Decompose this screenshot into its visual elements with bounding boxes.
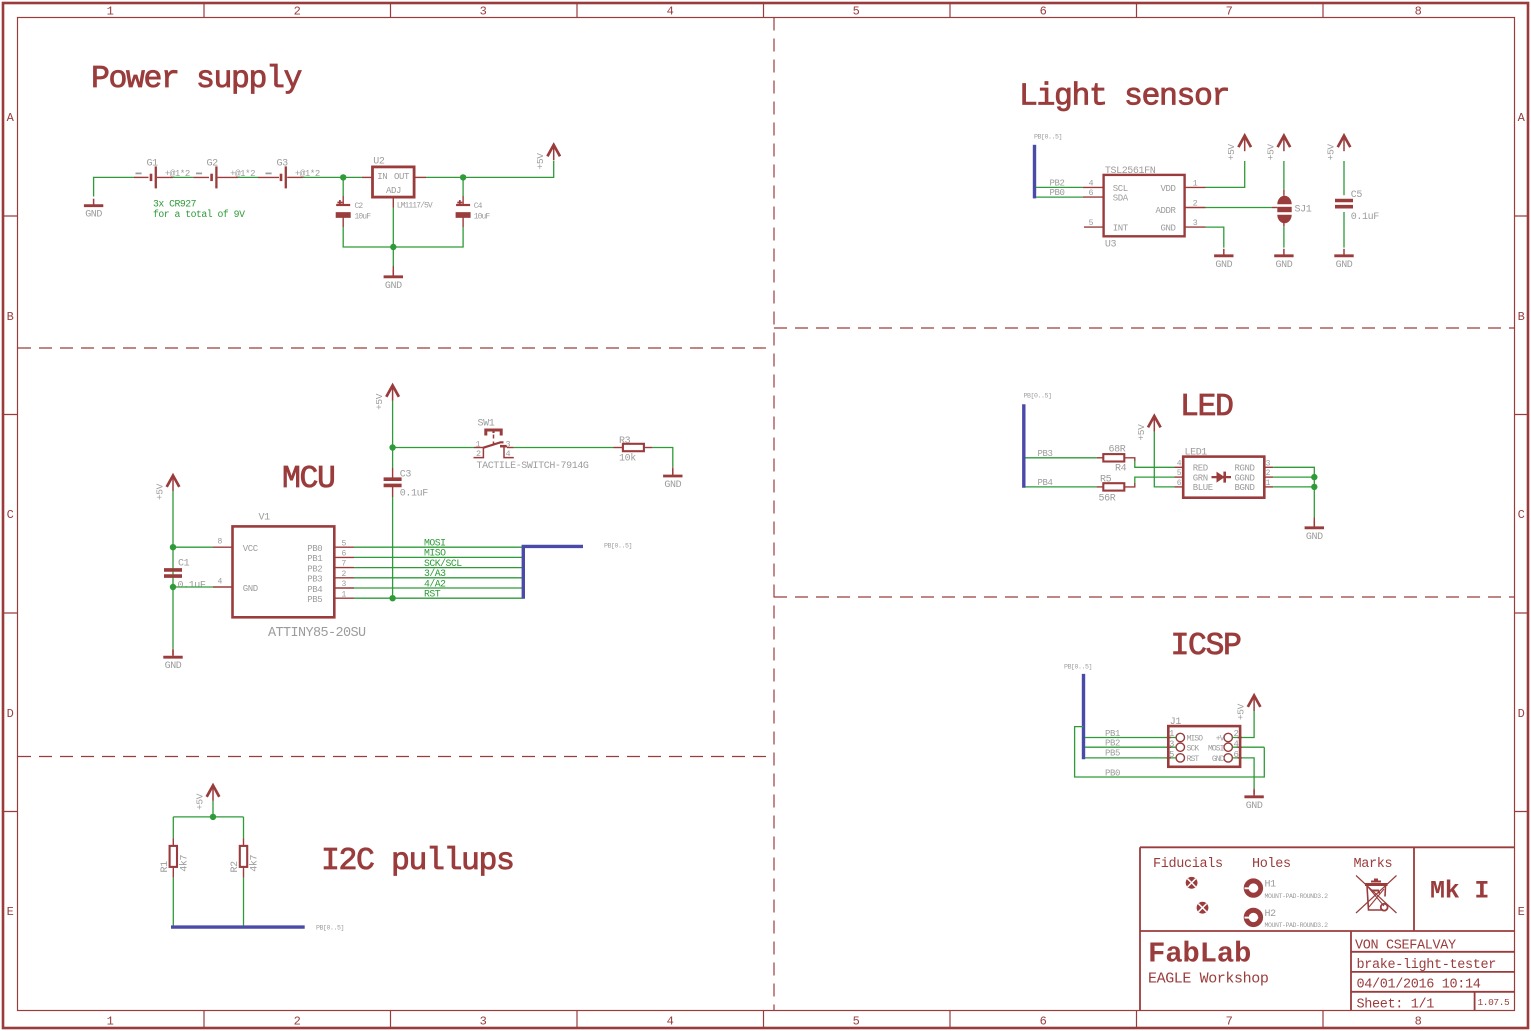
pin pad 1 <box>1176 733 1184 741</box>
title block outline <box>1140 847 1515 1010</box>
fiducial mark 1 <box>1186 877 1198 889</box>
svg-text:+V: +V <box>1216 735 1225 744</box>
+5V supply <box>1236 696 1261 721</box>
svg-text:SW1: SW1 <box>478 419 495 430</box>
wire junction to switch pin 1 <box>393 447 474 449</box>
wire pin 4 MOSI <box>1233 746 1265 748</box>
right horizontal section divider dashed upper <box>774 327 1514 329</box>
svg-text:04/01/2016 10:14: 04/01/2016 10:14 <box>1357 978 1481 993</box>
bus PB[0..5] <box>1033 145 1036 199</box>
wire G1 to G2 <box>157 176 209 178</box>
svg-text:C: C <box>1518 508 1525 522</box>
svg-text:RST: RST <box>424 589 441 600</box>
battery G1 <box>151 166 156 188</box>
wire net PB5 to pin 5 <box>1085 757 1176 759</box>
svg-text:8: 8 <box>1415 1014 1422 1028</box>
pin 1 VDD to +5V <box>1185 186 1206 188</box>
svg-text:C1: C1 <box>178 559 190 570</box>
svg-text:U2: U2 <box>373 157 385 168</box>
svg-text:Power supply: Power supply <box>91 62 302 97</box>
WEEE crossed-out bin mark <box>1356 876 1397 914</box>
svg-text:VCC: VCC <box>243 544 259 554</box>
svg-text:G3: G3 <box>277 158 289 169</box>
svg-text:B: B <box>1518 310 1525 324</box>
svg-text:PB2: PB2 <box>1050 179 1065 189</box>
+5V supply <box>1226 136 1251 161</box>
+5V supply <box>1136 416 1161 441</box>
svg-text:SCK: SCK <box>1187 744 1200 753</box>
bus PB[0..5] <box>523 546 583 598</box>
wire G2 to G3 <box>218 176 279 178</box>
svg-text:5: 5 <box>853 1014 860 1028</box>
svg-text:PB5: PB5 <box>307 595 322 605</box>
svg-text:LED1: LED1 <box>1185 447 1208 458</box>
left horizontal section divider dashed upper <box>18 347 774 349</box>
wire top rail <box>173 816 243 818</box>
node junction at C4 <box>460 174 466 180</box>
svg-text:PB[0..5]: PB[0..5] <box>316 925 344 932</box>
wire net PB4 to R5 <box>1026 486 1097 488</box>
node junction switch <box>389 444 395 450</box>
svg-text:10uF: 10uF <box>355 213 372 222</box>
right horizontal section divider dashed lower <box>774 596 1514 598</box>
svg-text:R3: R3 <box>619 436 631 447</box>
svg-text:6: 6 <box>1040 5 1047 19</box>
svg-text:PB2: PB2 <box>1105 739 1120 749</box>
svg-text:56R: 56R <box>1099 494 1116 505</box>
svg-text:RED: RED <box>1193 464 1208 474</box>
svg-text:Sheet: 1/1: Sheet: 1/1 <box>1357 997 1435 1012</box>
battery G2 <box>212 166 217 188</box>
pin pad 6 <box>1224 754 1232 762</box>
svg-text:GND: GND <box>1160 223 1175 233</box>
+5V supply left <box>155 476 180 501</box>
light sensor U3 <box>1104 175 1185 236</box>
svg-text:1: 1 <box>1169 729 1174 739</box>
svg-text:R4: R4 <box>1115 463 1127 474</box>
svg-text:SCL: SCL <box>1113 184 1128 194</box>
svg-text:U3: U3 <box>1105 239 1117 250</box>
svg-text:1: 1 <box>476 439 481 449</box>
ground <box>663 469 682 491</box>
wire GND pin <box>173 586 213 588</box>
pin PB5 wire to bus <box>334 597 354 599</box>
svg-text:Holes: Holes <box>1252 857 1291 872</box>
hole H2 <box>1245 910 1261 924</box>
svg-text:Light sensor: Light sensor <box>1019 80 1229 115</box>
svg-text:PB[0..5]: PB[0..5] <box>1064 663 1092 670</box>
svg-text:Marks: Marks <box>1354 857 1393 872</box>
svg-text:GGND: GGND <box>1234 473 1254 483</box>
pin pad 2 <box>1224 733 1232 741</box>
svg-text:C5: C5 <box>1351 190 1363 201</box>
svg-text:ADDR: ADDR <box>1155 206 1176 216</box>
hole H1 <box>1245 881 1261 895</box>
wire R5 to LED GRN pin <box>1125 483 1135 487</box>
ground <box>84 199 103 221</box>
wire net PB1 to pin 1 <box>1085 737 1176 739</box>
svg-text:BLUE: BLUE <box>1193 483 1213 493</box>
svg-text:1: 1 <box>107 5 114 19</box>
svg-text:BGND: BGND <box>1234 483 1254 493</box>
svg-text:RGND: RGND <box>1234 464 1254 474</box>
node junction bottom rail <box>390 244 396 250</box>
svg-text:PB3: PB3 <box>307 575 322 585</box>
node junction RST <box>389 595 395 601</box>
wire net PB2 to pin 3 <box>1085 746 1176 748</box>
pin 2 ADDR to SJ1 <box>1185 207 1206 209</box>
pin pad 5 <box>1176 754 1184 762</box>
svg-text:PB0: PB0 <box>307 544 322 554</box>
svg-text:C4: C4 <box>474 202 483 211</box>
capacitor C1 <box>164 570 182 576</box>
svg-text:0.1uF: 0.1uF <box>400 489 428 500</box>
pin PB1 wire to bus <box>334 556 354 558</box>
svg-text:7: 7 <box>1226 1014 1233 1028</box>
svg-text:R1: R1 <box>160 861 171 873</box>
svg-text:PB[0..5]: PB[0..5] <box>604 543 632 550</box>
wire pin 6 to GND <box>1233 758 1255 789</box>
node junction GND side <box>170 584 176 590</box>
svg-text:Fiducials: Fiducials <box>1153 857 1223 872</box>
wire switch pin 3 to R3 <box>507 447 514 449</box>
wire net PB0 from bus to MOSI <box>1075 727 1265 777</box>
svg-text:SDA: SDA <box>1113 194 1129 204</box>
resistor R1 <box>170 846 177 867</box>
svg-text:VDD: VDD <box>1160 184 1175 194</box>
svg-text:V1: V1 <box>259 513 271 524</box>
diode symbol inside LED1 <box>1212 472 1232 483</box>
wire +5V to LED BLUE pin <box>1154 432 1174 487</box>
ICSP header J1 <box>1168 726 1240 767</box>
svg-text:4: 4 <box>667 5 674 19</box>
ground <box>1244 790 1263 812</box>
+5V supply <box>1265 136 1290 161</box>
wire C4 to bottom rail <box>462 214 464 227</box>
resistor R5 <box>1103 483 1124 490</box>
wire net PB2 to SCL <box>1036 186 1083 188</box>
wire +5V to junction <box>212 801 214 817</box>
wire C2 to bottom rail <box>342 214 344 227</box>
svg-text:C2: C2 <box>355 202 364 211</box>
svg-text:PB4: PB4 <box>1038 478 1053 488</box>
pin PB3 wire to bus <box>334 577 354 579</box>
ground <box>1334 249 1353 271</box>
column numbers bottom <box>107 1014 1422 1028</box>
svg-text:PB1: PB1 <box>1105 729 1120 739</box>
bus PB[0..5] <box>1082 674 1085 759</box>
wire BGND <box>1264 486 1273 488</box>
wire SJ1 bottom to GND <box>1283 219 1285 226</box>
svg-text:MOSI: MOSI <box>1208 744 1224 753</box>
svg-text:R2: R2 <box>230 861 241 873</box>
ground <box>1274 249 1293 271</box>
bus PB[0..5] <box>171 925 305 928</box>
svg-text:PB1: PB1 <box>307 554 322 564</box>
node junction GGND <box>1311 474 1317 480</box>
svg-text:ADJ: ADJ <box>386 186 401 196</box>
wire GGND <box>1264 476 1273 478</box>
svg-text:MCU: MCU <box>282 462 335 497</box>
ground <box>1305 521 1324 543</box>
wire U2 ADJ to bottom rail <box>392 197 394 207</box>
capacitor C2 <box>336 200 351 215</box>
svg-text:0.1uF: 0.1uF <box>1351 212 1379 223</box>
resistor R4 <box>1103 454 1124 461</box>
svg-text:B: B <box>7 310 14 324</box>
battery G3 <box>281 166 286 188</box>
svg-text:for a total of 9V: for a total of 9V <box>153 209 245 220</box>
svg-text:GND: GND <box>243 584 258 594</box>
solder jumper SJ1 <box>1277 196 1291 223</box>
svg-text:MOUNT-PAD-ROUND3.2: MOUNT-PAD-ROUND3.2 <box>1265 922 1329 929</box>
svg-text:Mk I: Mk I <box>1430 877 1489 906</box>
svg-text:0.1uF: 0.1uF <box>178 581 206 592</box>
svg-text:D: D <box>7 707 14 721</box>
wire right leg to R2 <box>243 817 245 838</box>
pin pad 4 <box>1224 743 1232 751</box>
svg-text:VON CSEFALVAY: VON CSEFALVAY <box>1355 938 1456 953</box>
svg-text:8: 8 <box>1415 5 1422 19</box>
svg-text:PB[0..5]: PB[0..5] <box>1024 393 1052 400</box>
svg-text:ICSP: ICSP <box>1171 629 1242 664</box>
svg-text:G1: G1 <box>147 158 159 169</box>
svg-text:10uF: 10uF <box>474 213 491 222</box>
wire down to GND <box>172 587 174 649</box>
svg-text:MISO: MISO <box>1187 735 1204 744</box>
svg-text:PB[0..5]: PB[0..5] <box>1034 133 1062 140</box>
svg-text:E: E <box>1518 905 1525 919</box>
svg-text:R5: R5 <box>1100 474 1112 485</box>
svg-text:PB0: PB0 <box>1050 188 1065 198</box>
row letters right <box>1518 111 1526 919</box>
svg-text:C: C <box>7 508 14 522</box>
svg-text:IN: IN <box>377 172 387 182</box>
svg-text:EAGLE Workshop: EAGLE Workshop <box>1148 971 1268 988</box>
capacitor C4 <box>456 200 471 215</box>
svg-text:TSL2561FN: TSL2561FN <box>1105 166 1156 177</box>
wire C5 to GND <box>1343 212 1345 248</box>
wire +5V to C5 <box>1343 161 1345 195</box>
svg-text:4k7: 4k7 <box>179 854 191 871</box>
+5V supply <box>1326 136 1351 161</box>
svg-text:10k: 10k <box>619 453 636 465</box>
resistor R2 <box>240 846 247 867</box>
node junction BGND <box>1311 484 1317 490</box>
wire U2 OUT to +5V <box>414 176 426 178</box>
node junction VCC <box>170 544 176 550</box>
svg-text:LM1117/5V: LM1117/5V <box>397 202 433 211</box>
svg-text:ATTINY85-20SU: ATTINY85-20SU <box>268 626 366 641</box>
wire left leg to R1 <box>172 817 174 838</box>
node junction at C2 <box>340 174 346 180</box>
column tick marks top band <box>204 4 1323 18</box>
svg-text:PB0: PB0 <box>1105 768 1120 778</box>
svg-text:3: 3 <box>1193 218 1198 228</box>
svg-text:GRN: GRN <box>1193 473 1208 483</box>
svg-text:PB3: PB3 <box>1038 449 1053 459</box>
svg-text:2: 2 <box>476 449 481 459</box>
wire pin 2 to +5V <box>1233 711 1255 738</box>
node junction <box>210 814 216 820</box>
svg-text:E: E <box>7 905 14 919</box>
svg-text:H1: H1 <box>1265 880 1277 891</box>
column tick marks bottom band <box>204 1011 1323 1028</box>
svg-text:3: 3 <box>480 1014 487 1028</box>
+5V supply <box>195 785 220 810</box>
+5V supply <box>535 145 560 170</box>
wire net PB3 to R4 <box>1026 457 1097 459</box>
svg-text:5: 5 <box>853 5 860 19</box>
svg-text:6: 6 <box>1040 1014 1047 1028</box>
fiducial mark 2 <box>1197 902 1209 914</box>
svg-text:5: 5 <box>1169 750 1174 760</box>
svg-text:2: 2 <box>1193 198 1198 208</box>
svg-text:5: 5 <box>1089 218 1094 228</box>
wire +5V to VCC <box>172 491 174 587</box>
svg-text:1: 1 <box>1193 178 1198 188</box>
pin PB4 wire to bus <box>334 587 354 589</box>
wire junction to C4 <box>462 177 464 196</box>
svg-text:SJ1: SJ1 <box>1295 204 1312 215</box>
wire G3 to U2 IN <box>287 176 303 178</box>
RGB LED LED1 <box>1183 457 1264 498</box>
+5V supply at C3 <box>374 385 399 410</box>
ground <box>163 650 182 672</box>
svg-text:3: 3 <box>1169 739 1174 749</box>
voltage regulator U2 <box>373 167 415 197</box>
wire to C3 <box>392 468 394 478</box>
row letters left <box>7 111 15 919</box>
svg-text:D: D <box>1518 707 1525 721</box>
svg-text:PB2: PB2 <box>307 564 322 574</box>
svg-text:INT: INT <box>1113 223 1129 233</box>
wire junction to C2 <box>342 177 344 196</box>
vertical section divider dashed <box>773 18 775 1011</box>
svg-text:TACTILE-SWITCH-7914G: TACTILE-SWITCH-7914G <box>477 461 589 472</box>
svg-text:3: 3 <box>480 5 487 19</box>
svg-text:J1: J1 <box>1170 717 1182 728</box>
wire VCC pin <box>173 546 213 548</box>
svg-text:PB4: PB4 <box>307 585 322 595</box>
tactile switch SW1 <box>474 430 514 458</box>
svg-text:4: 4 <box>1089 178 1094 188</box>
svg-text:4: 4 <box>667 1014 674 1028</box>
pin pad 3 <box>1176 743 1184 751</box>
ground <box>1214 249 1233 271</box>
svg-text:G2: G2 <box>207 158 219 169</box>
wire bottom rail to GND <box>392 247 394 266</box>
wire +5V down to switch junction <box>392 401 394 468</box>
svg-text:C3: C3 <box>400 470 412 481</box>
svg-text:4: 4 <box>506 449 511 459</box>
pin PB0 wire to bus <box>334 546 354 548</box>
svg-text:6: 6 <box>1089 188 1094 198</box>
bus PB[0..5] <box>1022 404 1025 487</box>
svg-text:FabLab: FabLab <box>1148 938 1251 971</box>
wire C3 to RST net <box>392 487 394 497</box>
left horizontal section divider dashed lower <box>18 756 774 758</box>
svg-text:RST: RST <box>1187 755 1200 764</box>
svg-text:2: 2 <box>294 1014 301 1028</box>
svg-text:PB5: PB5 <box>1105 749 1120 759</box>
wire net PB0 to SDA <box>1036 196 1083 198</box>
svg-text:4k7: 4k7 <box>249 854 261 871</box>
pin PB2 wire to bus <box>334 567 354 569</box>
row tick marks left band <box>4 216 18 812</box>
wire RGND to GND rail <box>1264 466 1273 468</box>
svg-text:LED: LED <box>1180 390 1233 425</box>
svg-text:1.07.5: 1.07.5 <box>1478 997 1511 1008</box>
wire SJ1 top to +5V <box>1283 190 1285 196</box>
wire R4 to LED RED pin <box>1125 458 1135 461</box>
pin 3 GND wire <box>1185 226 1206 228</box>
wire R1 to bus <box>172 867 174 878</box>
svg-text:1: 1 <box>107 1014 114 1028</box>
svg-text:MOUNT-PAD-ROUND3.2: MOUNT-PAD-ROUND3.2 <box>1265 893 1329 900</box>
capacitor C3 <box>384 479 402 485</box>
svg-text:H2: H2 <box>1265 909 1277 920</box>
wire R2 to bus <box>243 867 245 878</box>
wire GND to battery G1 <box>94 177 134 196</box>
ground <box>384 270 403 292</box>
svg-text:OUT: OUT <box>394 172 410 182</box>
svg-text:GND: GND <box>1212 755 1225 764</box>
svg-text:3x CR927: 3x CR927 <box>153 199 197 210</box>
column numbers top <box>107 5 1422 19</box>
svg-text:68R: 68R <box>1109 445 1126 456</box>
pin 5 INT stub <box>1084 226 1104 228</box>
svg-text:I2C pullups: I2C pullups <box>321 844 514 879</box>
svg-text:brake-light-tester: brake-light-tester <box>1357 958 1497 973</box>
svg-text:2: 2 <box>294 5 301 19</box>
resistor R3 <box>623 444 644 451</box>
microcontroller V1 <box>233 526 335 617</box>
svg-text:7: 7 <box>1226 5 1233 19</box>
capacitor C5 <box>1335 201 1353 207</box>
wire R3 to GND <box>644 447 652 449</box>
wire down to GND <box>1313 487 1315 518</box>
row tick marks right band <box>1515 216 1528 812</box>
